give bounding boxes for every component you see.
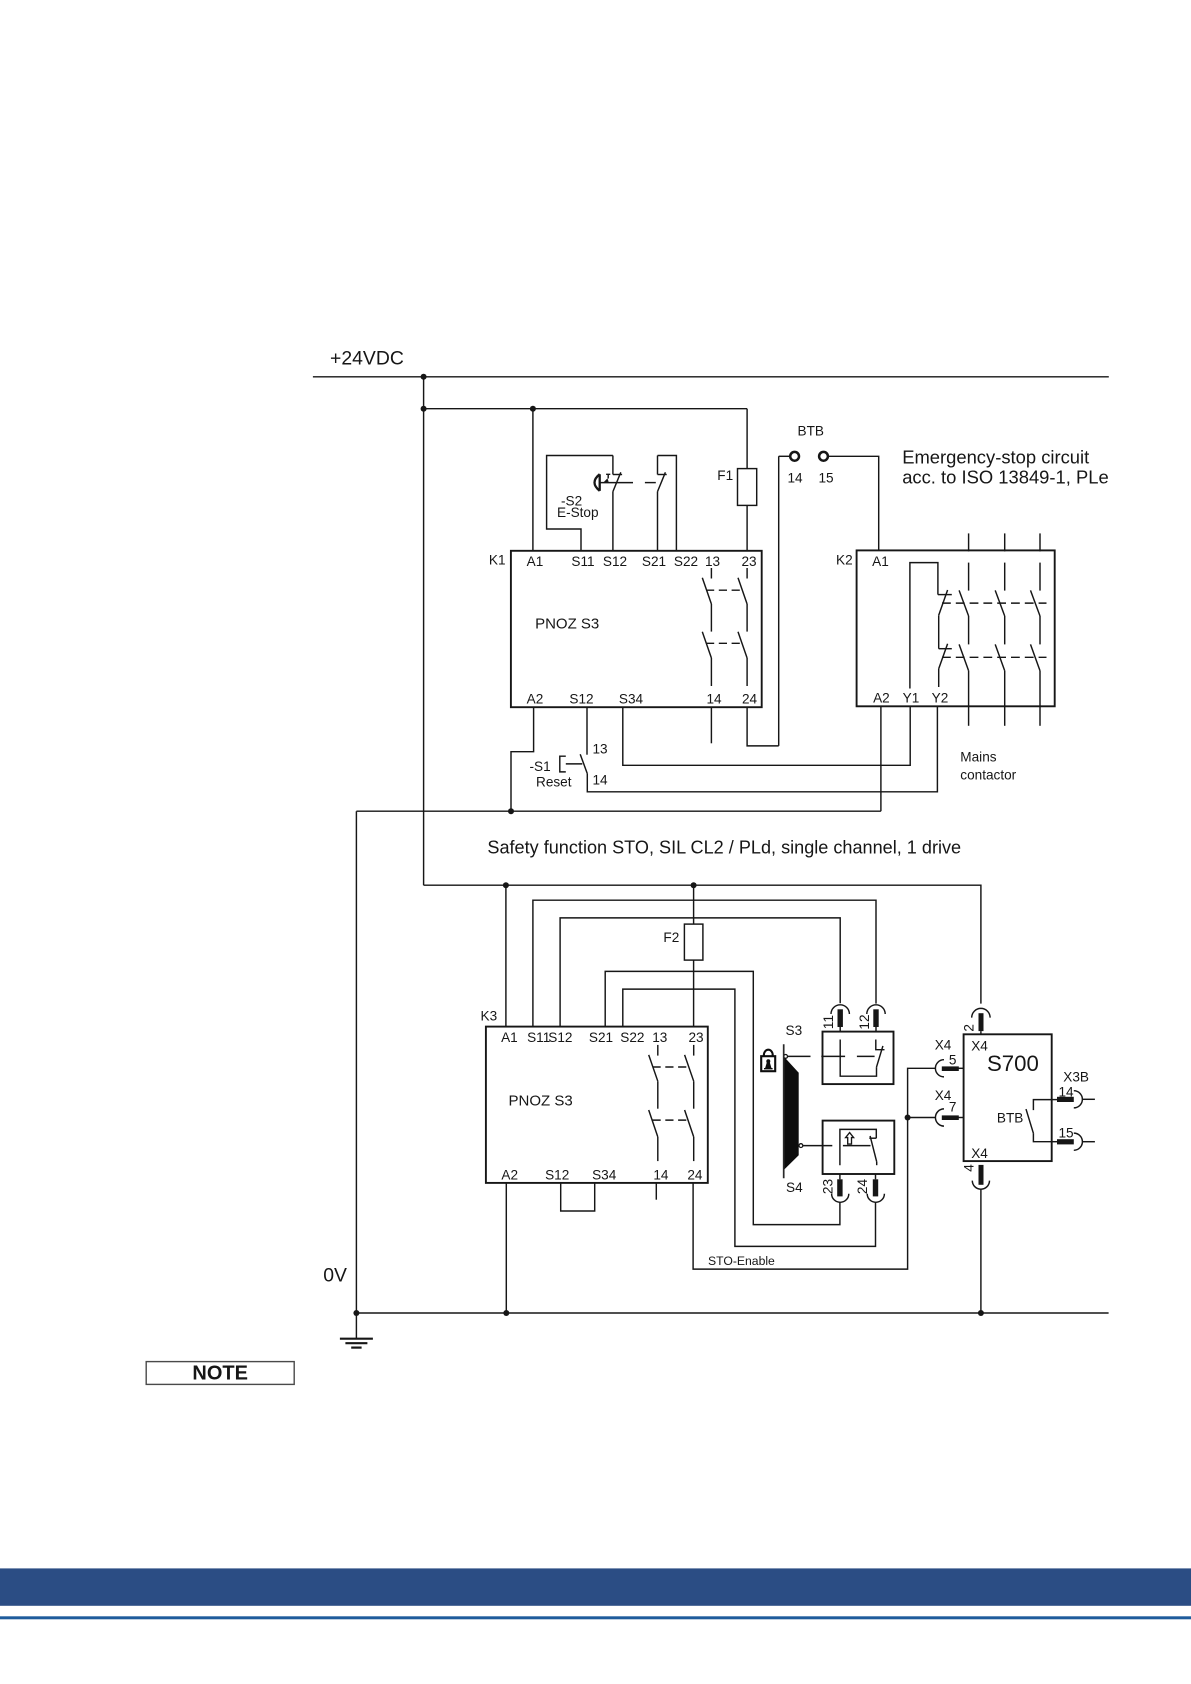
connector X3B-14 lead [1052, 1099, 1057, 1101]
wire K3 S11 to connector 12 [533, 900, 876, 1026]
wire K3 S21 loop to S4 23 [605, 971, 840, 1224]
wire 0V rail [356, 1312, 1108, 1314]
svg-text:F1: F1 [717, 468, 733, 483]
svg-text:S12: S12 [548, 1030, 572, 1045]
node junction X4-4 on 0V [978, 1310, 984, 1316]
svg-text:14: 14 [593, 773, 609, 788]
connector X3B-15 socket arc [1074, 1133, 1083, 1150]
wire to X4-5 [908, 1068, 936, 1117]
K2 main contact L1 [959, 533, 969, 725]
svg-text:acc. to ISO 13849-1, PLe: acc. to ISO 13849-1, PLe [902, 467, 1109, 488]
switch S2 contact 1 seat [613, 474, 622, 476]
K2 main contact L2 [995, 533, 1005, 725]
connector X4-2 socket arc [972, 1008, 990, 1017]
wire X3B-15 stub [1082, 1141, 1095, 1143]
switch S2 contact 2 blade [658, 472, 666, 491]
wire X4-5 into S700 [957, 1067, 963, 1069]
svg-text:contactor: contactor [960, 768, 1016, 783]
connector X3B-15 lead [1052, 1141, 1057, 1143]
guard door rail line [783, 1044, 785, 1178]
switch S4 internal contact [840, 1129, 877, 1165]
wire S4 box to pin 24 [875, 1174, 877, 1179]
K2 coil internal loop Y1 [910, 563, 938, 689]
svg-text:NOTE: NOTE [192, 1363, 248, 1385]
wire lower supply bus [356, 810, 881, 812]
wire X4-4 to 0V [980, 1189, 982, 1313]
connector X4-4 socket arc [972, 1181, 989, 1190]
svg-text:A2: A2 [501, 1168, 518, 1183]
wire K1 A1 supply [532, 409, 534, 551]
wire K3 24 to X4 node [693, 1118, 908, 1270]
wire K3 A1 drop [505, 885, 507, 1026]
wire bus corner down to 0V [355, 811, 357, 1313]
K3 mechanical link dashes row 1 [653, 1066, 690, 1068]
switch S2 contact 2 seat [658, 474, 667, 476]
wire +24VDC rail [313, 376, 1109, 378]
svg-text:X4: X4 [971, 1146, 988, 1161]
K1 mechanical link dashes row 1 [706, 589, 743, 591]
connector X4-2 pin [979, 1013, 984, 1031]
svg-text:K2: K2 [836, 553, 853, 568]
wire vertical drop from +24VDC rail [423, 377, 425, 885]
fuse F1 [738, 469, 757, 506]
svg-text:Reset: Reset [536, 775, 572, 790]
NOTE box [146, 1362, 294, 1385]
svg-text:S21: S21 [642, 554, 666, 569]
K3 bottom terminal labels [501, 1168, 703, 1183]
svg-text:24: 24 [687, 1168, 703, 1183]
wire S2 contact 2 to K1 S21 [657, 492, 659, 551]
svg-text:S3: S3 [786, 1023, 803, 1038]
svg-text:-S1: -S1 [530, 759, 551, 774]
wire 11 into S3 [839, 1027, 841, 1032]
svg-text:13: 13 [652, 1030, 667, 1045]
switch S3 pivot circle [784, 1055, 788, 1059]
svg-text:E-Stop: E-Stop [557, 505, 599, 520]
svg-text:Safety function STO, SIL CL2 /: Safety function STO, SIL CL2 / PLd, sing… [487, 838, 961, 858]
svg-text:24: 24 [742, 692, 758, 707]
svg-text:11: 11 [821, 1015, 836, 1029]
svg-text:S21: S21 [589, 1030, 613, 1045]
switch S4 actuator dashes [803, 1145, 871, 1147]
svg-text:14: 14 [788, 471, 804, 486]
fuse F2 [684, 924, 703, 960]
wire F1 supply drop [746, 409, 748, 469]
svg-text:14: 14 [653, 1168, 669, 1183]
svg-text:S12: S12 [603, 554, 627, 569]
connector X4-5 pin [942, 1066, 959, 1071]
drive S700 box [964, 1034, 1052, 1161]
node junction K3 A2 on 0V [503, 1310, 509, 1316]
contactor K2 box [857, 550, 1055, 706]
switch S3 box [823, 1032, 894, 1085]
wire K3 14 stub [655, 1183, 657, 1200]
svg-text:X4: X4 [935, 1038, 952, 1053]
wire K1 A2 to 0V bus [511, 707, 534, 811]
switch S4 pivot circle [799, 1144, 803, 1148]
switch S2 contact 1 upper terminal [612, 456, 614, 475]
wire 12 into S3 [875, 1027, 877, 1032]
switch S3 actuator dashes [787, 1055, 874, 1057]
connector 24 socket arc [867, 1194, 884, 1203]
connector X3B-14 pin [1057, 1097, 1074, 1102]
K3 top terminal labels [501, 1030, 703, 1045]
svg-text:X4: X4 [971, 1039, 988, 1054]
wire F2 drop [693, 885, 695, 924]
wire S4 box to pin 23 [839, 1174, 841, 1179]
relay K1 PNOZ S3 box [511, 551, 762, 707]
K3 output contact 13-14 chain [649, 1045, 658, 1161]
switch S2 mushroom head [595, 474, 600, 491]
S700 BTB contact [1026, 1100, 1052, 1142]
svg-text:STO-Enable: STO-Enable [708, 1254, 775, 1268]
connector 12 pin [873, 1009, 878, 1027]
wire to X4-7 [908, 1117, 936, 1119]
K2 main contact L3 [1031, 533, 1041, 725]
svg-text:A2: A2 [873, 691, 890, 706]
wire K1 24 to BTB 14 [747, 707, 779, 746]
wire STO supply rail [424, 885, 981, 1003]
svg-text:Y1: Y1 [903, 691, 920, 706]
connector X4-7 pin [942, 1115, 959, 1120]
connector 11 pin [838, 1009, 843, 1027]
ground symbol [340, 1313, 373, 1348]
svg-text:+24VDC: +24VDC [330, 348, 404, 370]
svg-text:15: 15 [1059, 1126, 1074, 1141]
connector X4-5 socket arc [935, 1060, 944, 1077]
svg-text:S700: S700 [987, 1051, 1039, 1076]
wire BTB 14 stub [779, 455, 790, 457]
switch S4 box [823, 1121, 895, 1174]
switch S4 actuation up-arrow [846, 1133, 854, 1145]
connector 23 pin [837, 1179, 842, 1196]
wire K1 S34 to K2 Y1 [623, 706, 910, 765]
wire K3 S12-S34 jumper [561, 1183, 595, 1211]
wire K3 S12 to connector 11 [560, 918, 840, 1027]
guard door wedge [785, 1057, 799, 1169]
K2 mechanical link dashes row 1 [942, 602, 1047, 604]
node junction on +24VDC rail [421, 374, 427, 380]
terminal BTB 15 circle [819, 452, 828, 461]
svg-text:S11: S11 [571, 554, 594, 569]
K3 mechanical link dashes row 2 [653, 1119, 690, 1121]
svg-text:BTB: BTB [997, 1111, 1023, 1126]
svg-text:23: 23 [821, 1179, 836, 1194]
svg-text:Mains: Mains [960, 750, 996, 765]
wire K1 14 stub [710, 707, 712, 743]
svg-text:12: 12 [857, 1014, 872, 1029]
connector 12 socket arc [867, 1005, 885, 1014]
node junction ground [353, 1310, 359, 1316]
wire S1 to K2 Y2 [587, 706, 937, 792]
svg-text:7: 7 [949, 1100, 957, 1115]
connector X4-4 pin [979, 1165, 984, 1185]
wire X3B-14 stub [1082, 1098, 1095, 1100]
wire K3 A2 to 0V [505, 1183, 507, 1313]
switch S1 Reset blade [580, 754, 587, 773]
wire branch line to F1 [424, 408, 747, 410]
svg-text:4: 4 [961, 1164, 976, 1172]
wire X4-7 into S700 [957, 1117, 963, 1119]
node junction at branch line [421, 406, 427, 412]
switch S2 actuator line [600, 482, 633, 484]
svg-text:PNOZ S3: PNOZ S3 [535, 616, 599, 633]
svg-text:13: 13 [705, 554, 720, 569]
connector 23 socket arc [832, 1194, 849, 1203]
svg-text:A2: A2 [527, 692, 544, 707]
svg-text:S11: S11 [527, 1030, 550, 1045]
connector X3B-15 pin [1057, 1139, 1074, 1144]
switch S2 contact 1 blade [613, 472, 621, 491]
K1 output contact 23-24 chain [738, 568, 747, 686]
svg-text:K3: K3 [481, 1009, 498, 1024]
svg-text:0V: 0V [323, 1265, 347, 1287]
node junction X4-5/7 [905, 1115, 911, 1121]
K2 mechanical link dashes row 2 [942, 656, 1047, 658]
node junction F2 [691, 882, 697, 888]
switch S2 contact 2 upper terminal [657, 456, 659, 475]
node junction A2 on bus [508, 808, 514, 814]
connector 11 socket arc [831, 1005, 849, 1014]
K2 mirror contact chain Y2 (NC) [938, 590, 952, 687]
svg-text:K1: K1 [489, 553, 506, 568]
switch S2 mechanical link dash [645, 482, 656, 484]
svg-text:S34: S34 [619, 692, 644, 707]
footer thin rule [0, 1616, 1191, 1619]
wire BTB 14 drop to K1 24 [778, 456, 780, 746]
svg-text:S22: S22 [620, 1030, 644, 1045]
wire F2 to K3 terminal 23 [693, 960, 695, 1027]
switch S2 trigger arrowhead [603, 478, 609, 482]
svg-text:BTB: BTB [798, 424, 824, 439]
K1 mechanical link dashes row 2 [706, 642, 743, 644]
node junction K1 A1 feed [530, 406, 536, 412]
padlock icon [761, 1050, 775, 1072]
wire F1 to K1 terminal 23 [746, 505, 748, 550]
switch S3 internal contact [840, 1040, 884, 1077]
K3 output contact 23-24 chain [685, 1045, 694, 1161]
svg-text:PNOZ S3: PNOZ S3 [509, 1093, 573, 1110]
connector X3B-14 socket arc [1074, 1091, 1083, 1108]
svg-text:A1: A1 [527, 554, 544, 569]
svg-text:S12: S12 [569, 692, 593, 707]
K1 bottom terminal labels [527, 692, 758, 707]
svg-text:Y2: Y2 [932, 691, 949, 706]
svg-text:S34: S34 [592, 1168, 617, 1183]
svg-text:5: 5 [949, 1053, 957, 1068]
wire BTB 15 to K2 A1 [828, 456, 879, 550]
switch S2 E-Stop wiring loop S11 [547, 456, 613, 552]
connector 24 pin [873, 1179, 878, 1196]
svg-text:13: 13 [593, 742, 608, 757]
node junction K3 A1 [503, 882, 509, 888]
relay K3 PNOZ S3 box [486, 1027, 708, 1183]
terminal BTB 14 circle [790, 452, 799, 461]
svg-text:23: 23 [688, 1030, 703, 1045]
wire K2 A2 riser [880, 706, 882, 811]
svg-text:X3B: X3B [1063, 1070, 1089, 1085]
wire K3 S22 loop to S4 24 [623, 989, 876, 1246]
wire S2 contact 1 to K1 S12 [612, 492, 614, 551]
svg-text:14: 14 [706, 692, 722, 707]
wire X4-2 into S700 [980, 1031, 982, 1034]
wire K1 S12 to S1 [586, 707, 588, 755]
switch S2 contact 2 loop to S22 [658, 456, 677, 552]
svg-text:S4: S4 [786, 1180, 803, 1195]
svg-text:24: 24 [855, 1179, 870, 1195]
svg-text:S12: S12 [545, 1168, 569, 1183]
connector X4-7 socket arc [935, 1109, 944, 1126]
K1 output contact 13-14 chain [702, 568, 711, 686]
svg-text:A1: A1 [501, 1030, 518, 1045]
K1 top terminal labels [527, 554, 757, 569]
svg-text:Emergency-stop circuit: Emergency-stop circuit [902, 447, 1089, 468]
svg-text:23: 23 [741, 554, 756, 569]
svg-text:A1: A1 [872, 554, 889, 569]
svg-text:F2: F2 [663, 930, 679, 945]
svg-text:2: 2 [961, 1024, 976, 1032]
svg-text:S22: S22 [674, 554, 698, 569]
switch S2 trigger T mark [606, 474, 610, 478]
svg-text:15: 15 [819, 471, 834, 486]
switch S1 pushbutton actuator [560, 756, 583, 772]
footer bar [0, 1568, 1191, 1605]
